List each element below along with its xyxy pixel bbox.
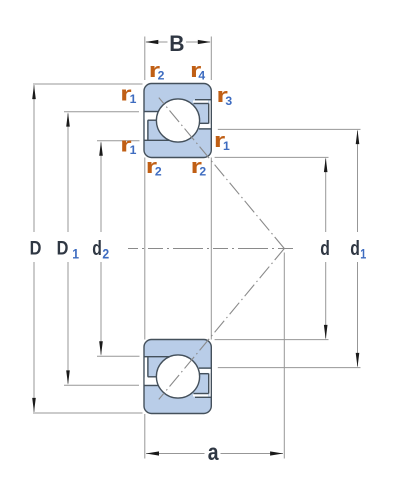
bottom section left step vertical [147, 357, 149, 377]
dimension line a [146, 453, 205, 455]
bottom section right shoulder vertical [208, 374, 210, 394]
bottom section gap white left column [145, 357, 147, 384]
svg-text:2: 2 [155, 165, 162, 179]
arrowhead a right [270, 451, 283, 455]
top section gap white left column [145, 112, 147, 139]
extension line D1 top [64, 111, 139, 113]
svg-text:d: d [320, 238, 330, 260]
arrowhead B right [198, 40, 211, 44]
bottom section right shoulder top line [199, 373, 209, 375]
arrowhead d1 top [356, 130, 360, 145]
top section gap white left [145, 112, 162, 119]
top section right shoulder bottom line [199, 122, 209, 124]
arrowhead D1 bottom [66, 370, 70, 385]
extension line d bottom [215, 339, 329, 341]
top section gap white right strip [193, 101, 208, 103]
top section inner-ring top-left face line [144, 139, 169, 141]
top section outer-ring left face line [144, 111, 159, 113]
top section inner-ring left shoulder line [148, 119, 157, 121]
bottom section inner-ring left shoulder line [148, 376, 157, 378]
bottom section outer-ring left face line [144, 385, 159, 387]
dimension line D [33, 85, 35, 232]
bottom section ball [156, 355, 199, 398]
top section right gap line [194, 103, 209, 105]
arrowhead d2 bottom [99, 341, 103, 356]
arrowhead d1 bottom [356, 353, 360, 368]
bottom section gap white right strip [193, 394, 208, 396]
svg-text:1: 1 [360, 246, 366, 262]
svg-text:1: 1 [130, 92, 137, 106]
bottom section inner-ring bottom-left face line [144, 356, 169, 358]
dimension line d1 [357, 131, 359, 232]
svg-text:1: 1 [223, 139, 230, 153]
arrowhead D top [32, 85, 36, 100]
extension line d1 bottom [218, 367, 361, 369]
arrowhead B left [145, 40, 158, 44]
top section ring block [144, 84, 211, 158]
svg-text:1: 1 [130, 143, 137, 157]
arrowhead d top [324, 158, 328, 173]
svg-text:4: 4 [198, 69, 205, 83]
top section outer-ring right face line [195, 99, 211, 101]
extension line a left vertical [144, 414, 146, 459]
bottom section outer-ring right face line [195, 396, 211, 398]
extension line right vertical between sections [210, 158, 212, 340]
dimension line d2 [100, 143, 102, 233]
top section ball [156, 99, 199, 142]
extension line d1 top [218, 128, 361, 130]
bottom section gap white left [145, 378, 162, 385]
extension line a right vertical [283, 253, 285, 459]
dimension line d [325, 159, 327, 232]
arrowhead d bottom [324, 325, 328, 340]
svg-text:2: 2 [199, 165, 206, 179]
top section gap white right column [209, 101, 210, 129]
contact angle line top [159, 98, 284, 249]
bottom section inner-ring right step line [199, 367, 211, 369]
arrowhead D1 top [66, 112, 70, 127]
extension line B left vertical [144, 37, 146, 81]
top section inner-ring right step line [199, 128, 211, 130]
svg-text:d: d [92, 238, 102, 260]
bottom section ring block [144, 340, 211, 414]
bottom section right gap line [194, 393, 209, 395]
svg-text:2: 2 [158, 69, 165, 83]
svg-text:1: 1 [72, 246, 79, 262]
dimension line B [146, 41, 168, 43]
svg-text:2: 2 [102, 246, 109, 262]
svg-text:a: a [208, 439, 219, 465]
top section right shoulder vertical [208, 104, 210, 124]
extension line D bottom [33, 412, 143, 414]
bottom section gap white right column [209, 369, 210, 397]
extension line d2 bottom [97, 355, 140, 357]
svg-text:D: D [57, 238, 69, 260]
svg-text:B: B [169, 31, 184, 56]
arrowhead D bottom [32, 398, 36, 413]
extension line B right vertical [210, 37, 212, 81]
extension line D top [33, 83, 143, 85]
svg-text:d: d [350, 238, 360, 260]
extension line left vertical between sections [144, 158, 146, 340]
extension line d2 top [97, 140, 140, 142]
svg-text:3: 3 [225, 94, 232, 108]
svg-text:D: D [30, 238, 42, 260]
top section left step vertical [147, 120, 149, 140]
extension line d top [215, 156, 329, 158]
top section gap white right lower [198, 124, 211, 128]
dimension line D1 [67, 114, 69, 233]
bottom section gap white right lower [198, 369, 211, 373]
arrowhead a left [146, 451, 159, 455]
arrowhead d2 top [99, 141, 103, 156]
axis center line [128, 248, 293, 250]
extension line D1 bottom [64, 384, 139, 386]
contact angle line bottom [159, 249, 284, 400]
